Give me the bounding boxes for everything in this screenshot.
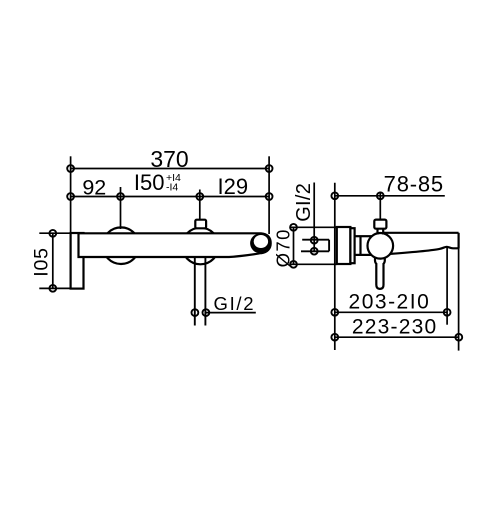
105 extension line top [39,232,70,234]
dimension line 78-85 [335,195,445,197]
spout tip face (side view) [458,233,460,249]
inlet upper pipe line [302,239,329,241]
dimension line 203-210 [335,311,447,313]
dot 92/150 [117,193,124,200]
inlet dot lower [311,248,318,255]
inlet dot upper [311,237,318,244]
dot Ø70 top [290,224,297,231]
riser pipe left line [194,258,196,326]
svg-text:92: 92 [82,175,106,199]
cartridge stem right [382,229,384,235]
spout outlet ring inner [254,235,268,248]
body tube joint [359,236,361,255]
escutcheon plate (side view) [337,227,351,264]
body tube [355,236,372,255]
riser square nut [195,220,206,229]
dot 105 bottom [49,285,56,292]
105 extension line bottom [39,287,70,289]
cartridge stem left [376,229,378,235]
svg-text:I29: I29 [218,174,249,199]
dot 370 left [67,165,74,172]
dot 92 left [67,193,74,200]
dot 129 right [266,193,273,200]
spout outlet ring [250,234,270,254]
extension line riser fitting (x=199.8) [199,190,201,222]
G1/2 leader (side view) [313,183,315,252]
svg-text:370: 370 [150,146,188,172]
dimension line 370 [71,168,270,170]
extension line spout tip (x=269.1) [268,156,270,234]
spout body (front view) [79,233,271,257]
svg-text:223-230: 223-230 [352,315,437,338]
riser fitting circle [182,228,219,265]
G1/2 leader underline [206,312,256,314]
dot 78-85 left [331,192,338,199]
spout top edge (side view) [384,232,459,234]
wall plate (front view) [71,233,84,289]
escutcheon collar [350,228,354,263]
spout bottom curve (side view) [390,247,459,254]
extension line left valve (x=120.5) [120,187,122,229]
dot 105 top [49,230,56,237]
dimension line Ø70 [293,227,295,264]
left valve circle [103,227,140,264]
extension line spout tip side (x=458.6) [458,233,460,351]
wall reference line [334,183,336,350]
svg-text:78-85: 78-85 [384,172,444,197]
dot 203-210 right [444,309,451,316]
svg-text:GI/2: GI/2 [214,293,256,314]
valve body circle (side view) [368,233,394,259]
dot 223-230 left [331,334,338,341]
inlet bracket vertical [328,240,330,252]
dot 370 right [266,165,273,172]
lever rod [375,252,385,289]
dimension line 223-230 [335,336,459,338]
cartridge square nut [374,220,386,229]
dimension line 92/150/129 [71,196,270,198]
extension line left (x=70.6) [70,156,72,233]
riser pipe right line [204,258,206,326]
dot Ø70 bottom [290,261,297,268]
svg-text:I05: I05 [31,247,53,277]
extension line cartridge (x=380.3) [379,192,381,222]
inlet lower pipe line [301,250,329,252]
dot 203-210 left [331,309,338,316]
svg-text:I50: I50 [134,170,165,195]
dot 78-85 right [377,192,384,199]
extension line lever tip (x=447.1) [446,248,448,325]
Ø70 extension top [291,226,337,228]
G1/2 label dot right [203,309,210,316]
svg-text:-I4: -I4 [166,182,178,194]
G1/2 label dot left [192,309,199,316]
dimension line 105 [52,233,54,288]
dot 150/129 [196,193,203,200]
svg-text:GI/2: GI/2 [293,183,315,222]
Ø70 extension bottom [291,263,337,265]
svg-text:203-2I0: 203-2I0 [349,291,431,314]
dot 223-230 right [455,334,462,341]
